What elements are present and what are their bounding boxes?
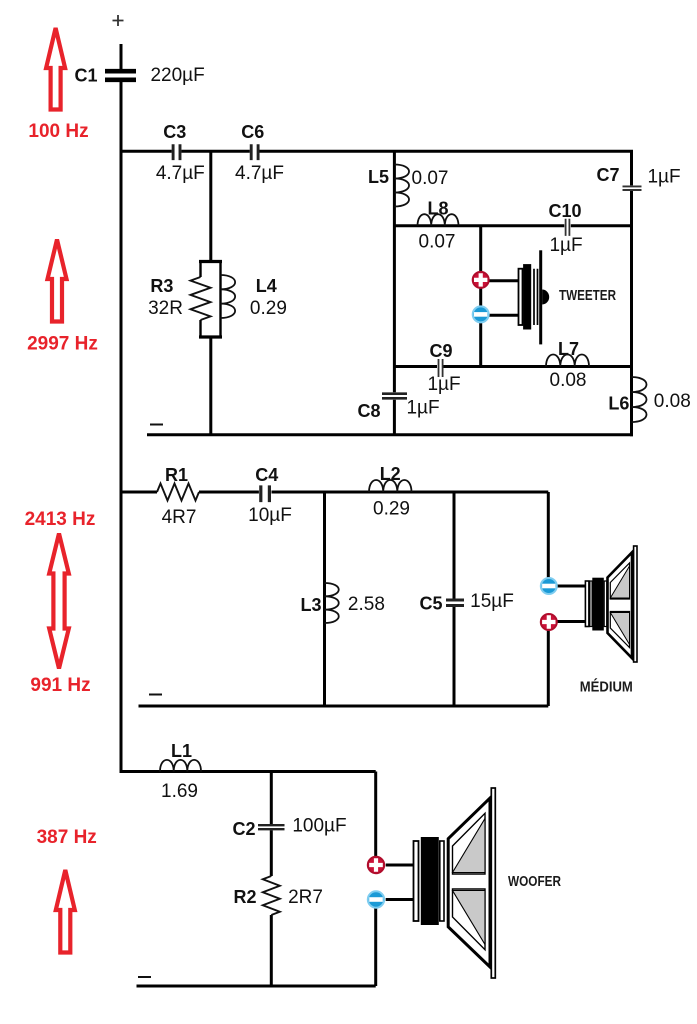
svg-text:C10: C10 — [548, 201, 581, 221]
svg-text:L5: L5 — [368, 167, 389, 187]
svg-text:L3: L3 — [300, 595, 321, 615]
svg-text:R1: R1 — [165, 465, 188, 485]
svg-text:220µF: 220µF — [150, 65, 204, 86]
svg-text:991 Hz: 991 Hz — [30, 675, 90, 696]
svg-text:C7: C7 — [596, 165, 619, 185]
svg-text:C5: C5 — [419, 594, 442, 614]
svg-text:L2: L2 — [380, 464, 401, 484]
svg-text:0.07: 0.07 — [412, 168, 449, 189]
svg-text:C9: C9 — [429, 341, 452, 361]
svg-text:L8: L8 — [427, 199, 448, 219]
svg-text:10µF: 10µF — [248, 505, 292, 526]
svg-text:100µF: 100µF — [292, 816, 346, 837]
svg-text:L4: L4 — [256, 276, 277, 296]
svg-text:C2: C2 — [232, 819, 255, 839]
svg-text:MÉDIUM: MÉDIUM — [580, 679, 633, 696]
svg-text:4R7: 4R7 — [162, 507, 197, 528]
svg-text:C1: C1 — [74, 65, 97, 85]
svg-text:C6: C6 — [241, 122, 264, 142]
svg-text:1µF: 1µF — [427, 374, 460, 395]
svg-text:387 Hz: 387 Hz — [37, 827, 97, 848]
svg-text:0.29: 0.29 — [373, 498, 410, 519]
svg-text:0.07: 0.07 — [419, 232, 456, 253]
svg-text:2413 Hz: 2413 Hz — [25, 509, 96, 530]
svg-text:2.58: 2.58 — [348, 594, 385, 615]
svg-text:2997 Hz: 2997 Hz — [27, 334, 98, 355]
svg-text:100 Hz: 100 Hz — [28, 121, 88, 142]
svg-text:TWEETER: TWEETER — [559, 288, 616, 304]
svg-text:4.7µF: 4.7µF — [235, 163, 284, 184]
svg-text:0.08: 0.08 — [550, 370, 587, 391]
svg-text:0.29: 0.29 — [250, 298, 287, 319]
svg-text:C3: C3 — [163, 122, 186, 142]
svg-text:1.69: 1.69 — [161, 781, 198, 802]
svg-text:2R7: 2R7 — [288, 887, 323, 908]
svg-text:1µF: 1µF — [406, 398, 439, 419]
svg-text:C4: C4 — [255, 465, 278, 485]
svg-text:WOOFER: WOOFER — [508, 874, 561, 890]
svg-text:1µF: 1µF — [647, 167, 680, 188]
svg-text:32R: 32R — [148, 298, 183, 319]
svg-text:1µF: 1µF — [549, 235, 582, 256]
svg-text:L1: L1 — [171, 741, 192, 761]
svg-text:R2: R2 — [233, 887, 256, 907]
svg-text:L7: L7 — [558, 339, 579, 359]
svg-text:0.08: 0.08 — [654, 391, 691, 412]
svg-text:15µF: 15µF — [470, 591, 514, 612]
svg-text:4.7µF: 4.7µF — [156, 163, 205, 184]
svg-text:R3: R3 — [150, 276, 173, 296]
svg-text:C8: C8 — [357, 401, 380, 421]
svg-text:L6: L6 — [608, 394, 629, 414]
